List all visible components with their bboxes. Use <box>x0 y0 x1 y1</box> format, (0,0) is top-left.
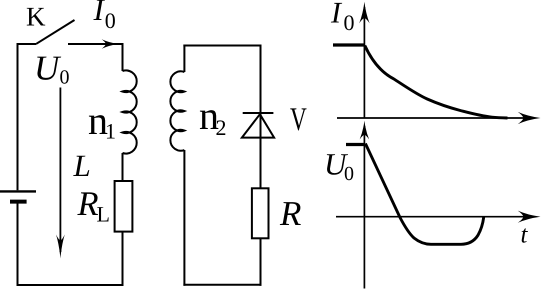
svg-text:1: 1 <box>105 119 116 144</box>
svg-text:0: 0 <box>344 163 354 185</box>
svg-text:R: R <box>279 194 301 233</box>
svg-text:L: L <box>97 202 110 227</box>
svg-text:R: R <box>77 185 99 223</box>
svg-text:0: 0 <box>60 67 70 89</box>
svg-text:I: I <box>93 0 106 27</box>
svg-text:K: K <box>26 2 46 32</box>
svg-text:t: t <box>521 222 529 249</box>
svg-text:U: U <box>34 48 62 87</box>
svg-text:0: 0 <box>344 10 355 35</box>
svg-text:0: 0 <box>105 8 116 33</box>
svg-text:2: 2 <box>216 115 227 140</box>
svg-text:L: L <box>73 148 91 183</box>
svg-text:V: V <box>290 102 307 138</box>
